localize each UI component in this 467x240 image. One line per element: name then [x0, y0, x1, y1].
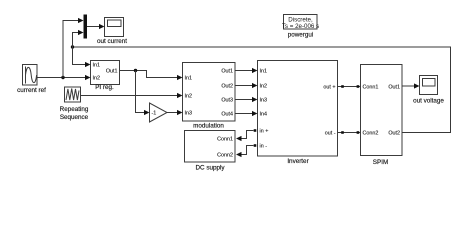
arrow into PI In1: [85, 62, 91, 67]
svg-text:-1: -1: [152, 111, 157, 117]
mux (out current): [84, 15, 88, 39]
subsystem SPIM: [361, 65, 403, 156]
scope out current: [105, 18, 124, 37]
wire SPIM Out1 to scope out voltage: [402, 85, 415, 87]
wire feedback down to PI In1: [73, 47, 86, 65]
wire sine out to PI In2: [37, 77, 86, 79]
svg-text:Out1: Out1: [106, 68, 118, 74]
wire PI Out1 to modulation In1: [120, 71, 178, 78]
junction feedback tee: [71, 45, 74, 48]
svg-text:out +: out +: [323, 84, 335, 90]
svg-text:Sequence: Sequence: [60, 114, 89, 121]
wire Repeating Sequence to modulation In2: [81, 95, 178, 97]
svg-text:Repeating: Repeating: [60, 106, 89, 113]
svg-text:DC supply: DC supply: [195, 165, 225, 172]
source block current ref (sine wave): [23, 65, 38, 86]
svg-text:SPIM: SPIM: [373, 159, 388, 166]
port square at SPIM Conn2: [357, 131, 360, 134]
wire modulation Out2 to inverter In2: [235, 85, 253, 87]
arrow into inverter In1: [252, 68, 258, 73]
arrow into inverter In4: [252, 111, 258, 116]
svg-text:Out2: Out2: [388, 130, 400, 136]
subsystem Inverter: [258, 61, 338, 157]
port square at SPIM Conn1: [357, 85, 360, 88]
port square at inverter out -: [341, 131, 344, 134]
connection line inverter out - to SPIM Conn2: [338, 132, 361, 134]
svg-text:out voltage: out voltage: [413, 98, 444, 105]
arrow into gain: [144, 110, 150, 115]
subsystem modulation: [183, 63, 236, 122]
svg-text:out -: out -: [325, 130, 336, 136]
svg-text:Out3: Out3: [221, 97, 233, 103]
svg-text:In3: In3: [260, 97, 268, 103]
port square at inverter out +: [341, 85, 344, 88]
svg-text:In2: In2: [185, 93, 193, 99]
wire modulation Out1 to inverter In1: [235, 70, 253, 72]
wire modulation Out3 to inverter In3: [235, 99, 253, 101]
svg-text:In4: In4: [260, 111, 268, 117]
port square at inverter in -: [254, 144, 257, 147]
svg-text:Out1: Out1: [388, 84, 400, 90]
wire modulation Out4 to inverter In4: [235, 113, 253, 115]
scope out voltage: [420, 76, 438, 95]
svg-text:In1: In1: [260, 68, 268, 74]
junction PI out branch: [134, 69, 137, 72]
subsystem DC supply: [185, 131, 236, 163]
svg-text:In2: In2: [260, 83, 268, 89]
arrow into modulation In1: [177, 75, 183, 80]
connection line inverter out + to SPIM Conn1: [338, 86, 361, 88]
arrow into PI In2: [85, 75, 91, 80]
wire branch down to gain input: [136, 71, 145, 113]
svg-text:Inverter: Inverter: [287, 158, 308, 165]
svg-text:powergui: powergui: [288, 32, 314, 39]
svg-text:Conn1: Conn1: [363, 84, 379, 90]
wire sine branch up to mux in1: [63, 21, 79, 78]
arrow into DC supply Conn1: [236, 136, 242, 141]
wire feedback from SPIM Out2 around right and top: [73, 47, 451, 133]
arrow into modulation In3: [177, 110, 183, 115]
wire mux out to scope: [87, 26, 100, 28]
svg-text:in -: in -: [260, 143, 268, 149]
wire feedback up to mux in2: [73, 33, 80, 48]
svg-text:Conn1: Conn1: [217, 136, 233, 142]
svg-text:current ref: current ref: [17, 87, 46, 94]
arrow into scope out current: [99, 24, 105, 29]
arrow into mux in1: [78, 18, 84, 23]
junction sine branch: [61, 76, 64, 79]
arrow into scope out voltage: [414, 83, 420, 88]
arrow into DC supply Conn2: [236, 152, 242, 157]
arrow into modulation In2: [177, 93, 183, 98]
svg-text:Out4: Out4: [221, 111, 233, 117]
connection line DC supply Conn2 to inverter in -: [241, 146, 254, 155]
svg-text:In3: In3: [185, 110, 193, 116]
connection line DC supply Conn1 to inverter in +: [241, 131, 254, 139]
powergui block: [282, 15, 319, 30]
arrow into inverter In2: [252, 83, 258, 88]
arrow into inverter In3: [252, 97, 258, 102]
svg-text:Ts = 2e-006 s: Ts = 2e-006 s: [282, 23, 319, 30]
gain -1: [150, 103, 168, 122]
arrow into mux in2: [78, 30, 84, 35]
source block Repeating Sequence: [65, 87, 81, 102]
subsystem PI reg.: [91, 61, 120, 85]
svg-text:Conn2: Conn2: [363, 130, 379, 136]
svg-text:in +: in +: [260, 128, 269, 134]
svg-text:Out2: Out2: [221, 83, 233, 89]
svg-text:In1: In1: [93, 62, 101, 68]
port square at inverter in +: [254, 129, 257, 132]
svg-text:In1: In1: [185, 75, 193, 81]
wire gain out to modulation In3: [167, 112, 178, 114]
svg-text:PI reg.: PI reg.: [95, 84, 114, 91]
svg-text:In2: In2: [93, 75, 101, 81]
svg-text:Conn2: Conn2: [217, 152, 233, 158]
svg-text:Out1: Out1: [221, 68, 233, 74]
svg-text:modulation: modulation: [193, 123, 224, 130]
svg-text:out current: out current: [97, 38, 127, 45]
